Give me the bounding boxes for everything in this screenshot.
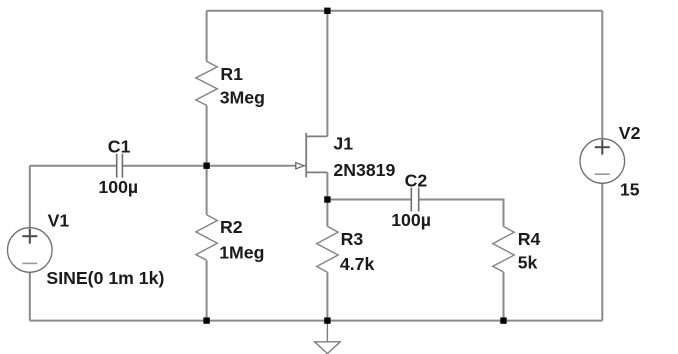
- wire R3 top lead: [326, 200, 328, 227]
- junction at top rail / J1 drain: [324, 8, 330, 14]
- junction at bottom rail R2: [203, 317, 209, 323]
- label R2 value 1Meg: [219, 243, 264, 263]
- svg-text:5k: 5k: [518, 252, 538, 272]
- wire C1 to JFET gate: [122, 165, 295, 167]
- ground: [315, 321, 341, 354]
- svg-text:SINE(0 1m 1k): SINE(0 1m 1k): [46, 268, 164, 288]
- label V1 value SINE: [46, 268, 164, 288]
- svg-text:C2: C2: [405, 170, 428, 190]
- label C2 value 100u: [391, 210, 431, 230]
- junction at gate node: [203, 163, 209, 169]
- wire V2 bottom lead: [601, 183, 603, 320]
- svg-text:R4: R4: [518, 229, 541, 249]
- wire C2 to R4 corner: [419, 200, 504, 227]
- wire source node to C2: [327, 199, 411, 201]
- svg-text:100µ: 100µ: [98, 177, 138, 197]
- label C2: [405, 170, 428, 190]
- wire top rail: [207, 10, 603, 12]
- svg-text:V2: V2: [619, 123, 641, 143]
- resistor R1: [196, 61, 217, 105]
- voltage source V1: [8, 228, 53, 273]
- svg-text:J1: J1: [333, 133, 353, 153]
- junction at source node: [324, 196, 330, 202]
- wire R2 top lead: [206, 166, 208, 215]
- wire J1 drain to top rail: [326, 11, 328, 137]
- svg-text:V1: V1: [48, 211, 70, 231]
- svg-text:C1: C1: [108, 136, 131, 156]
- svg-text:3Meg: 3Meg: [220, 88, 265, 108]
- label J1 value 2N3819: [333, 160, 395, 180]
- label V2 value 15: [620, 180, 640, 200]
- voltage source V2: [580, 139, 625, 184]
- wire V1 bottom lead: [29, 272, 31, 320]
- label R2: [220, 217, 243, 237]
- svg-text:4.7k: 4.7k: [340, 254, 375, 274]
- capacitor C1: [117, 154, 123, 178]
- label J1: [333, 133, 353, 153]
- label C1 value 100u: [98, 177, 138, 197]
- transistor J1 (N-JFET): [304, 133, 328, 178]
- label R4: [518, 229, 541, 249]
- wire R1 branch top lead: [206, 11, 208, 62]
- svg-text:R1: R1: [220, 64, 243, 84]
- gate arrow of J1: [296, 163, 304, 169]
- svg-text:100µ: 100µ: [391, 210, 431, 230]
- resistor R4: [493, 227, 514, 273]
- label R3 value 4.7k: [340, 254, 375, 274]
- wire V2 top lead: [601, 11, 603, 139]
- junction at bottom rail ground: [324, 317, 330, 323]
- resistor R3: [317, 226, 338, 272]
- wire R1 bottom lead to gate node: [206, 105, 208, 165]
- wire J1 source to node: [326, 172, 328, 199]
- junction at bottom rail R4: [500, 317, 506, 323]
- wire R2 bottom lead: [206, 260, 208, 320]
- wire gate node left segment to C1: [30, 165, 117, 167]
- svg-text:15: 15: [620, 180, 640, 200]
- svg-text:R3: R3: [341, 229, 364, 249]
- label R3: [341, 229, 364, 249]
- svg-text:1Meg: 1Meg: [219, 243, 264, 263]
- resistor R2: [196, 215, 217, 260]
- label R1: [220, 64, 243, 84]
- svg-text:R2: R2: [220, 217, 243, 237]
- label C1: [108, 136, 131, 156]
- capacitor C2: [411, 188, 418, 212]
- label R1 value 3Meg: [220, 88, 265, 108]
- label R4 value 5k: [518, 252, 538, 272]
- label V1: [48, 211, 70, 231]
- svg-text:2N3819: 2N3819: [333, 160, 395, 180]
- label V2: [619, 123, 641, 143]
- wire V1 top lead: [29, 166, 31, 228]
- wire R3 bottom lead: [326, 272, 328, 320]
- wire bottom rail: [30, 320, 603, 322]
- wire R4 bottom lead: [503, 272, 505, 321]
